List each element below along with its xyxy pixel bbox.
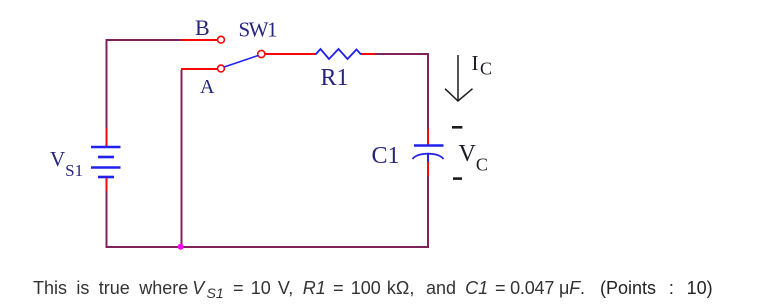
svg-text:VC: VC [459, 141, 488, 175]
caption: This is true where [33, 279, 188, 297]
svg-text:IC: IC [472, 51, 493, 79]
battery VS1 plate 3 long [91, 166, 121, 169]
red stub battery top [106, 128, 108, 146]
switch contact B circle [218, 36, 225, 43]
svg-text:SW1: SW1 [239, 18, 278, 42]
wire middle vertical [181, 70, 183, 247]
battery VS1 plate 2 short [98, 156, 114, 159]
red stub battery bottom [106, 178, 108, 191]
svg-text:C1: C1 [372, 143, 400, 169]
switch pole circle [258, 50, 265, 57]
wire top-left horizontal [107, 39, 182, 41]
caption: S1 subscript [207, 284, 224, 302]
junction node dot [178, 244, 184, 250]
red stub capacitor top [427, 129, 429, 145]
resistor R1 zigzag [316, 49, 362, 59]
current arrow IC head [445, 89, 473, 101]
red stub R1 right [361, 53, 375, 55]
svg-text:A: A [200, 76, 215, 98]
caption: = 0.047 uF. [495, 279, 585, 297]
battery VS1 plate 1 long [91, 146, 121, 149]
capacitor C1 top plate [414, 144, 444, 146]
svg-text:R1: R1 [321, 65, 349, 91]
current arrow IC shaft [457, 55, 459, 101]
wire left vertical [106, 39, 108, 128]
caption: (Points : 10) [600, 279, 713, 297]
minus sign above VC [452, 126, 462, 129]
wire bottom horizontal [106, 246, 430, 248]
capacitor C1 blue stub [427, 153, 429, 162]
caption: R1 [303, 279, 326, 297]
caption: V [192, 279, 204, 297]
battery VS1 plate 4 short [98, 176, 114, 179]
wire top-right horizontal [375, 53, 429, 55]
wire left vertical lower below battery [106, 191, 108, 248]
capacitor C1 curved bottom plate [413, 154, 444, 159]
red stub to switch contact B [181, 39, 217, 41]
wire right vertical lower [427, 176, 429, 247]
switch SW1 arm [224, 56, 258, 68]
minus sign below VC [453, 177, 462, 180]
red stub capacitor bottom [427, 161, 429, 176]
red stub to switch contact A [181, 68, 217, 70]
caption: C1 [465, 279, 488, 297]
svg-text:VS1: VS1 [50, 147, 83, 180]
svg-text:B: B [195, 15, 210, 40]
caption: kOhm, and [387, 279, 456, 297]
switch contact A circle [218, 65, 225, 72]
caption: = 100 kOhm, and [333, 279, 381, 297]
wire right vertical upper [427, 53, 429, 129]
caption: = 10 V, [233, 279, 293, 297]
red stub switch pole to R1 [265, 53, 316, 55]
